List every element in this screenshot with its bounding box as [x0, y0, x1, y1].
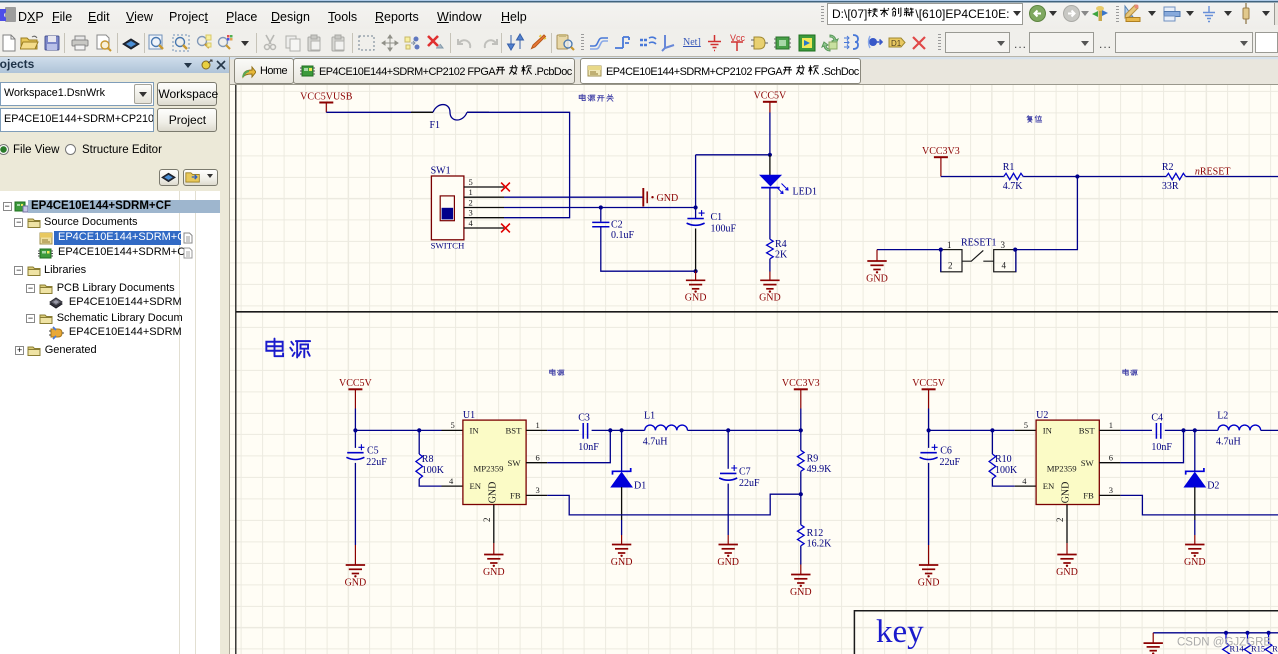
svg-text:GND: GND: [918, 577, 940, 588]
svg-text:2K: 2K: [775, 250, 788, 261]
svg-text:EN: EN: [470, 481, 482, 491]
LED LED1: [760, 175, 781, 186]
power port VCC5V U1: [348, 388, 362, 390]
svg-text:C4: C4: [1151, 413, 1163, 424]
pin 3 U2: [1099, 494, 1120, 496]
svg-text:6: 6: [536, 452, 540, 462]
svg-text:1: 1: [1109, 420, 1113, 430]
ground under C7: [719, 545, 738, 554]
svg-text:IN: IN: [470, 425, 480, 435]
svg-text:nRESET: nRESET: [1195, 167, 1231, 178]
svg-text:Net]: Net]: [683, 37, 701, 48]
svg-text:3: 3: [1109, 485, 1113, 495]
svg-text:C2: C2: [611, 220, 623, 231]
junction: [799, 428, 803, 432]
pin 4 U2: [1015, 485, 1036, 487]
power port VCC5V: [763, 101, 777, 103]
wire C6 to GND: [928, 463, 930, 545]
wire to D1: [621, 430, 623, 471]
pin 1 of SW1: [464, 196, 504, 198]
pin F1 left: [411, 111, 433, 113]
svg-text:16.2K: 16.2K: [807, 539, 833, 550]
pin 5 of SW1: [464, 186, 504, 188]
ground under U2: [1057, 555, 1076, 564]
svg-text:R8: R8: [422, 454, 434, 465]
junction: [1193, 428, 1197, 432]
wire R9 to R12: [800, 471, 802, 525]
power stub: [621, 535, 623, 545]
junction: [990, 428, 994, 432]
ground RESET1: [867, 261, 886, 270]
wire to C1: [695, 208, 697, 219]
wire SW U1: [547, 430, 610, 462]
svg-text:22uF: 22uF: [739, 478, 760, 489]
capacitor C1: [687, 218, 703, 220]
svg-text:3: 3: [536, 485, 540, 495]
power stub: [1066, 543, 1068, 555]
svg-text:2: 2: [1055, 518, 1065, 523]
ground under R12: [791, 575, 810, 584]
svg-text:3: 3: [1001, 240, 1006, 250]
power stub: [1152, 633, 1154, 643]
svg-text:L2: L2: [1217, 411, 1228, 422]
power stub: [354, 389, 356, 408]
switch SW1: [431, 176, 464, 240]
junction: [694, 205, 698, 209]
junction: [1224, 631, 1228, 635]
junction: [939, 248, 943, 252]
wire VCC5VUSB to F1: [326, 111, 433, 113]
svg-text:GND: GND: [759, 293, 781, 304]
no-ERC marker pin5: [501, 183, 510, 192]
section title 电源: [266, 339, 283, 357]
ground key section: [1144, 643, 1163, 651]
svg-text:10nF: 10nF: [578, 442, 599, 453]
svg-text:GND: GND: [866, 273, 888, 284]
svg-text:R4: R4: [775, 239, 787, 250]
junction: [927, 428, 931, 432]
resistor R12: [798, 525, 805, 546]
svg-text:R1: R1: [1003, 162, 1015, 173]
wire C1 node to LED node: [696, 154, 770, 156]
svg-text:GND: GND: [657, 193, 679, 204]
pin 4 U1: [442, 485, 463, 487]
svg-text:MP2359: MP2359: [474, 463, 504, 473]
resistor R15 (partial): [1244, 633, 1251, 654]
IC U1 MP2359: [463, 420, 526, 504]
ground under R4: [760, 280, 779, 289]
fuse F1: [433, 105, 467, 120]
pin 3 U1: [526, 494, 547, 496]
ground under C6: [919, 565, 938, 574]
svg-text:4.7uH: 4.7uH: [643, 436, 668, 447]
resistor R8: [416, 454, 423, 479]
svg-text:GND: GND: [483, 567, 505, 578]
svg-text:D1: D1: [634, 481, 646, 492]
power port VCC3V3 reset: [934, 156, 948, 158]
wire D1 to GND: [621, 520, 623, 535]
pushbutton RESET1: [941, 250, 962, 272]
svg-text:4.7K: 4.7K: [1003, 181, 1024, 192]
svg-text:EN: EN: [1043, 481, 1055, 491]
wire to C5: [354, 430, 356, 448]
junction: [1075, 174, 1079, 178]
wire VCC5V stub U1: [354, 409, 356, 431]
power stub: [493, 543, 495, 555]
svg-text:BST: BST: [506, 425, 523, 435]
svg-text:33R: 33R: [1162, 181, 1179, 192]
svg-text:SWITCH: SWITCH: [431, 241, 465, 251]
pin 5 U1: [442, 429, 463, 431]
sheet left border: [235, 85, 237, 654]
pin 2 of SW1: [464, 207, 504, 209]
wire to C7: [727, 430, 729, 468]
svg-text:4.7uH: 4.7uH: [1216, 436, 1241, 447]
svg-text:GND: GND: [1056, 567, 1078, 578]
svg-text:VCC3V3: VCC3V3: [782, 378, 820, 389]
svg-text:100uF: 100uF: [711, 224, 737, 235]
power stub: [769, 272, 771, 281]
svg-text:R12: R12: [807, 528, 824, 539]
wire to R8: [418, 430, 420, 454]
wire C4 to L2: [1165, 429, 1218, 431]
svg-text:100K: 100K: [422, 465, 445, 476]
junction: [353, 428, 357, 432]
junction: [799, 492, 803, 496]
svg-text:4: 4: [469, 218, 474, 228]
wire R4 to GND: [769, 259, 771, 272]
svg-text:U1: U1: [463, 410, 475, 421]
svg-text:C3: C3: [578, 413, 590, 424]
svg-text:5: 5: [451, 420, 455, 430]
svg-text:22uF: 22uF: [366, 457, 387, 468]
IC U2 MP2359: [1036, 420, 1099, 504]
junction: [1267, 631, 1271, 635]
wire SW1 pin1 to GND: [504, 196, 643, 198]
svg-text:CSDN @GJZGRB: CSDN @GJZGRB: [1177, 637, 1271, 649]
junction: [1181, 428, 1185, 432]
svg-text:GND: GND: [717, 557, 739, 568]
svg-text:4: 4: [449, 476, 454, 486]
svg-text:C7: C7: [739, 467, 751, 478]
svg-text:100K: 100K: [995, 465, 1018, 476]
wire to C6: [928, 430, 930, 448]
svg-text:GND: GND: [611, 557, 633, 568]
svg-text:VCC5V: VCC5V: [912, 378, 946, 389]
svg-text:C1: C1: [711, 212, 723, 223]
wire L2 output: [1261, 429, 1278, 431]
svg-text:3: 3: [469, 208, 473, 218]
pin 1 U2: [1099, 429, 1120, 431]
ground under D2: [1185, 545, 1204, 554]
wire down to C1 node: [695, 155, 697, 208]
svg-text:L1: L1: [644, 411, 655, 422]
resistor R (partial): [1265, 633, 1272, 654]
svg-text:GND: GND: [790, 587, 812, 598]
svg-text:22uF: 22uF: [940, 457, 961, 468]
wire BST to C3: [547, 429, 579, 431]
pin 1 U1: [526, 429, 547, 431]
label 电源开关: [579, 94, 585, 100]
wire to R9: [800, 430, 802, 450]
resistor R10: [989, 454, 996, 479]
svg-text:VCC5V: VCC5V: [339, 378, 373, 389]
ground under C1: [686, 280, 705, 289]
label 电源 (U2 circuit): [1123, 369, 1129, 375]
svg-text:1: 1: [536, 420, 540, 430]
wire to RESET1 pin3: [1015, 177, 1077, 250]
pin 2 U2: [1066, 505, 1068, 544]
inductor L1: [645, 425, 688, 430]
wire RESET1 pin1-pin2: [940, 250, 942, 272]
wire R12 to GND: [800, 546, 802, 565]
svg-text:R: R: [1272, 644, 1278, 654]
power port VCC5VUSB: [319, 102, 333, 104]
wire L1 to VCC3V3: [688, 429, 801, 431]
svg-text:2: 2: [469, 197, 473, 207]
wire SW1 pin2 net: [504, 207, 696, 209]
wire VCC3V3 stub: [800, 409, 802, 431]
power port GND (bar style): [643, 188, 647, 207]
wire R1 to R2: [1023, 176, 1166, 178]
wire R10 to EN: [992, 479, 1014, 486]
svg-text:4: 4: [1002, 261, 1007, 271]
svg-text:GND: GND: [1061, 482, 1072, 504]
capacitor C7: [720, 472, 736, 474]
capacitor C3: [583, 423, 587, 439]
key section border: [854, 611, 1278, 654]
pin 6 U1: [526, 462, 547, 464]
label 电源 (U1 circuit): [550, 369, 556, 375]
svg-text:key: key: [876, 614, 924, 650]
svg-text:GND: GND: [685, 293, 707, 304]
svg-text:D2: D2: [1207, 481, 1219, 492]
pin 6 U2: [1099, 462, 1120, 464]
junction: [694, 269, 698, 273]
wire VCC5V down: [769, 113, 771, 155]
svg-text:FB: FB: [1083, 490, 1094, 500]
resistor R2: [1166, 173, 1185, 179]
junction: [1245, 631, 1249, 635]
svg-text:IN: IN: [1043, 425, 1053, 435]
svg-text:VCC5VUSB: VCC5VUSB: [300, 91, 353, 102]
wire LED1 to R4: [769, 188, 771, 240]
pin LED1 anode: [769, 155, 771, 175]
wire input rail U1: [355, 429, 441, 431]
junction: [608, 428, 612, 432]
junction: [417, 428, 421, 432]
wire VCC5V stub U2: [928, 409, 930, 431]
junction: [1013, 248, 1017, 252]
power stub: [325, 103, 327, 113]
wire SW U2: [1120, 430, 1183, 462]
wire BST to C4: [1120, 429, 1152, 431]
svg-text:C5: C5: [367, 446, 379, 457]
pin 5 U2: [1015, 429, 1036, 431]
resistor R9: [798, 450, 805, 471]
power stub: [1194, 535, 1196, 545]
svg-text:VCC3V3: VCC3V3: [922, 146, 960, 157]
junction: [599, 205, 603, 209]
wire FB U1 to divider: [547, 494, 801, 515]
address / navigation cluster: [821, 6, 824, 24]
svg-text:SW: SW: [1081, 458, 1095, 468]
capacitor C2: [592, 222, 609, 226]
power port VCC3V3 output: [794, 388, 808, 390]
power stub: [876, 250, 878, 261]
svg-text:R9: R9: [807, 454, 819, 465]
svg-text:6: 6: [1109, 452, 1113, 462]
pin D1 bottom: [621, 487, 623, 520]
wire R8 to EN: [419, 479, 441, 486]
pin D2 bottom: [1194, 487, 1196, 520]
inductor L2: [1218, 425, 1261, 430]
svg-text:1: 1: [469, 187, 473, 197]
svg-text:F1: F1: [430, 120, 441, 131]
wire input rail U2: [929, 429, 1015, 431]
pin 4 of SW1: [464, 227, 504, 229]
svg-text:SW: SW: [508, 458, 522, 468]
ground under U1: [484, 555, 503, 564]
capacitor C4: [1156, 423, 1160, 439]
wire GND to RESET1 pin1: [877, 249, 941, 251]
svg-text:0.1uF: 0.1uF: [611, 230, 635, 241]
pin F1 right: [467, 111, 489, 113]
svg-text:GND: GND: [345, 577, 367, 588]
wire D2 to GND: [1194, 520, 1196, 535]
power stub: [769, 102, 771, 113]
power stub: [800, 389, 802, 408]
junction: [620, 428, 624, 432]
wire to C2: [600, 208, 602, 222]
svg-text:R10: R10: [995, 454, 1012, 465]
wire FB U2: [1120, 495, 1278, 515]
label 复位: [1027, 116, 1032, 123]
resistor R4: [767, 239, 774, 259]
wire RESET1 pin3-pin4: [1015, 250, 1017, 272]
svg-text:4: 4: [1022, 476, 1027, 486]
power stub: [800, 565, 802, 575]
wire key section: [1153, 632, 1278, 634]
wire to R10: [991, 430, 993, 454]
capacitor C5: [347, 452, 363, 454]
wire to D2: [1194, 430, 1196, 471]
svg-text:2: 2: [948, 261, 953, 271]
pin 2 U1: [493, 505, 495, 544]
power port VCC5V U2: [922, 388, 936, 390]
svg-text:BST: BST: [1079, 425, 1096, 435]
svg-text:1: 1: [947, 240, 952, 250]
wire C2 to GND net: [601, 227, 696, 272]
svg-text:LED1: LED1: [793, 187, 817, 198]
svg-text:SW1: SW1: [431, 166, 451, 177]
svg-text:10nF: 10nF: [1151, 442, 1172, 453]
svg-text:RESET1: RESET1: [961, 238, 997, 249]
power stub: [928, 389, 930, 408]
svg-text:49.9K: 49.9K: [807, 464, 833, 475]
junction: [768, 153, 772, 157]
ground under C5: [346, 565, 365, 574]
svg-text:2: 2: [482, 518, 492, 523]
resistor R1: [1004, 173, 1023, 179]
svg-text:D1: D1: [891, 39, 902, 48]
pin C1 bottom: [695, 229, 697, 272]
power stub: [354, 545, 356, 565]
wire C3 to L1: [592, 429, 645, 431]
wire VCC3V3 to R1: [941, 176, 1004, 178]
capacitor C6: [920, 452, 936, 454]
power stub: [695, 271, 697, 280]
svg-text:VCC5V: VCC5V: [754, 91, 788, 102]
wire R2 to nRESET: [1186, 176, 1278, 178]
wire C7 to GND: [727, 484, 729, 535]
svg-text:FB: FB: [510, 490, 521, 500]
power stub: [727, 535, 729, 545]
pin 3 of SW1: [464, 217, 504, 219]
svg-text:GND: GND: [1184, 557, 1206, 568]
wire F1 to SW1 pin3: [467, 112, 570, 217]
svg-text:5: 5: [1024, 420, 1028, 430]
ground under D1: [612, 545, 631, 554]
svg-text:C6: C6: [940, 446, 952, 457]
resistor R14 (partial): [1223, 633, 1230, 654]
column lines: [179, 191, 180, 654]
junction: [726, 428, 730, 432]
power stub: [928, 545, 930, 565]
wire C5 to GND: [354, 463, 356, 545]
svg-text:5: 5: [469, 177, 473, 187]
svg-text:GND: GND: [488, 482, 499, 504]
power stub: [940, 157, 942, 176]
section divider line: [236, 311, 1278, 313]
svg-text:MP2359: MP2359: [1047, 463, 1077, 473]
svg-text:U2: U2: [1036, 410, 1048, 421]
no-ERC marker pin4: [501, 224, 510, 233]
svg-text:R2: R2: [1162, 162, 1174, 173]
